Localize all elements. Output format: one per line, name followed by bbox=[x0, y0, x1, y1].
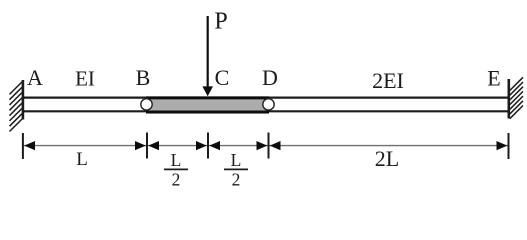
svg-text:2L: 2L bbox=[375, 146, 399, 171]
svg-text:2: 2 bbox=[172, 170, 181, 190]
svg-text:L: L bbox=[76, 149, 88, 170]
svg-text:E: E bbox=[487, 66, 500, 91]
svg-text:C: C bbox=[215, 65, 230, 90]
svg-text:B: B bbox=[136, 65, 151, 90]
svg-text:2: 2 bbox=[232, 170, 241, 190]
svg-text:L: L bbox=[171, 150, 182, 170]
svg-text:EI: EI bbox=[75, 67, 95, 91]
svg-text:A: A bbox=[27, 65, 43, 90]
svg-text:L: L bbox=[231, 150, 242, 170]
svg-text:D: D bbox=[262, 65, 278, 90]
svg-text:P: P bbox=[214, 9, 227, 35]
svg-text:2EI: 2EI bbox=[372, 68, 404, 93]
